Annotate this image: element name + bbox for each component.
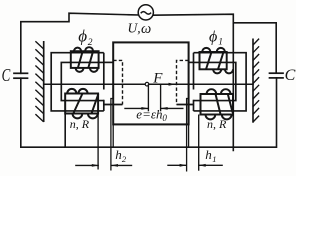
svg-text:n, R: n, R xyxy=(70,117,90,131)
svg-text:h: h xyxy=(205,147,212,162)
svg-text:2: 2 xyxy=(122,154,127,164)
svg-text:C: C xyxy=(2,66,11,86)
svg-text:n, R: n, R xyxy=(207,117,227,131)
svg-text:C: C xyxy=(285,67,296,84)
svg-text:F: F xyxy=(152,70,163,86)
svg-text:0: 0 xyxy=(162,113,167,123)
svg-text:h: h xyxy=(115,147,122,162)
svg-text:ϕ: ϕ xyxy=(209,29,217,46)
svg-text:1: 1 xyxy=(212,154,216,164)
svg-text:1: 1 xyxy=(218,37,223,47)
svg-text:e=εh: e=εh xyxy=(136,107,162,122)
svg-text:ω: ω xyxy=(141,21,151,37)
svg-text:ϕ: ϕ xyxy=(78,27,87,46)
svg-text:2: 2 xyxy=(88,38,93,48)
svg-text:U,: U, xyxy=(128,21,141,36)
